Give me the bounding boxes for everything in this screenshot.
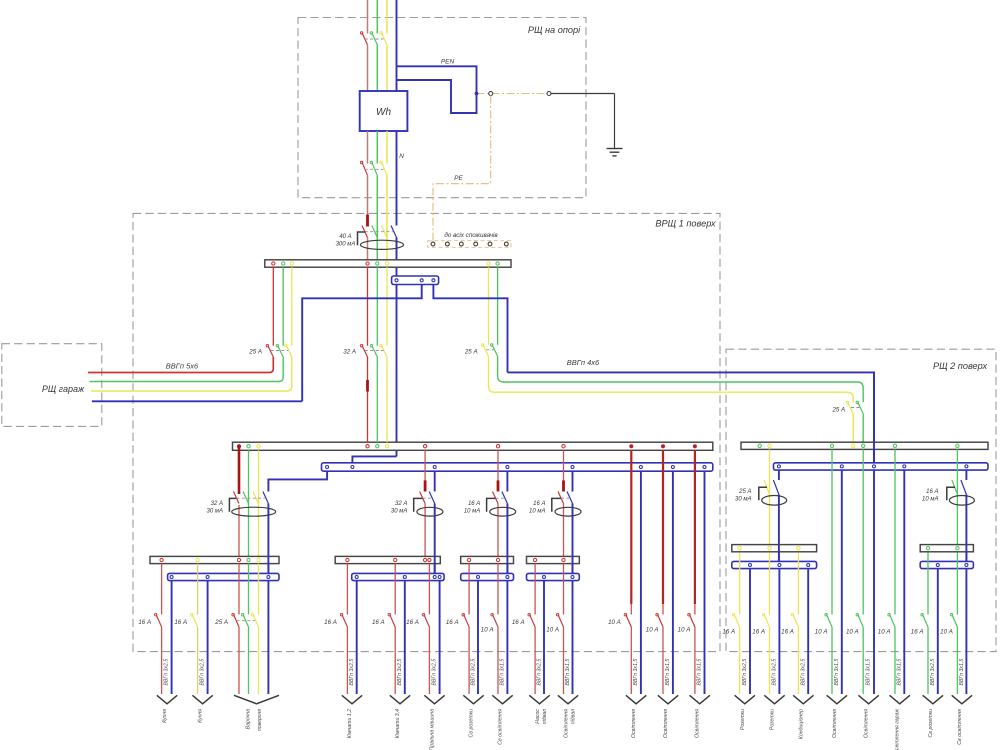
N busbar A2 tap direct3 (703, 466, 706, 469)
wire 32A to bus A2 L3 (386, 357, 388, 442)
RCD group1 pole L3 (253, 492, 259, 504)
wire circuit floor2-1 phase out (739, 627, 741, 694)
wire circuit floor2-7 phase out (927, 627, 929, 694)
busbar floor2 tap spare (758, 444, 761, 447)
RCD floor2-2 pole phase (952, 480, 958, 495)
wire circuit group4-1 phase out (534, 627, 536, 694)
arrow outgoing group1-1 (157, 695, 177, 704)
svg-text:32 А: 32 А (395, 501, 407, 507)
group busbar group2 (335, 556, 440, 563)
group3 busbar tap c1 (467, 558, 470, 561)
svg-text:ВВГп 4х6: ВВГп 4х6 (567, 358, 600, 367)
svg-text:16 А: 16 А (446, 619, 459, 626)
RCD group2 toroid (414, 498, 423, 511)
svg-text:підвал: підвал (542, 709, 548, 724)
svg-text:Освітлення: Освітлення (695, 709, 701, 738)
svg-text:25 А: 25 А (248, 348, 262, 355)
N busbar floor2 tap c4 (840, 465, 843, 468)
RCD group2 pole N (429, 492, 435, 504)
wire N tap right (433, 285, 507, 373)
breaker QF1 pole L3 (382, 33, 388, 45)
wire circuit group1-3 L3 (258, 564, 260, 615)
svg-text:30 мА: 30 мА (735, 497, 751, 503)
breaker group2-3 (424, 615, 430, 628)
N busbar tap 2 (420, 279, 423, 282)
wire N incoming drop (396, 0, 398, 66)
svg-text:Св освітлення: Св освітлення (957, 709, 963, 745)
svg-text:10 А: 10 А (608, 619, 621, 626)
group4 N busbar tap c1 (543, 576, 546, 579)
svg-text:16 А: 16 А (174, 619, 187, 626)
group2 busbar tap in (423, 558, 426, 561)
busbar A1 tap L3 32A (385, 262, 388, 265)
RCD QD1 toroid (358, 232, 366, 245)
arrow outgoing group4-1 (529, 695, 549, 704)
PE bus terminal 6 (504, 242, 508, 246)
wire circuit group1-3 L1 (238, 564, 240, 615)
wire circuit floor2-6 N (903, 470, 905, 694)
breaker 25A garage link (271, 350, 289, 352)
RCD group4 link (561, 497, 569, 499)
wire L3 incoming drop (386, 0, 388, 34)
svg-text:32 А: 32 А (211, 501, 223, 507)
svg-text:Освітлення: Освітлення (864, 709, 870, 738)
group N busbar group3 (461, 573, 514, 580)
wire circuit group2-3 phase out (428, 627, 430, 694)
group busbar floor2-right tap c7 (926, 547, 929, 550)
wire RCD to bus L1 (367, 237, 369, 259)
svg-text:Кімнати 3,4: Кімнати 3,4 (395, 709, 401, 738)
svg-text:16 А: 16 А (533, 501, 545, 507)
PE terminal 1 (489, 92, 493, 96)
group busbar floor2-left tap c1 (738, 547, 741, 550)
wire N tap left (302, 285, 422, 402)
wire feed group1 L2 (248, 450, 250, 556)
svg-text:10 А: 10 А (815, 628, 828, 635)
breaker group4-2 (558, 615, 564, 628)
group1 N busbar tap c2 (206, 576, 209, 579)
svg-text:N: N (399, 153, 404, 160)
svg-text:Освітлення гараж: Освітлення гараж (895, 709, 901, 750)
arrow outgoing group1-3 (234, 695, 279, 704)
breaker 25A floor2 pole L2 (492, 345, 498, 357)
PE bus terminal 3 (459, 242, 463, 246)
cable ВВГп 5х6 wire L2 (90, 357, 284, 382)
RCD group1 pole N (263, 492, 269, 504)
arrow outgoing group1-2 (192, 695, 212, 704)
svg-text:PEN: PEN (441, 59, 455, 66)
svg-text:підвал: підвал (570, 709, 576, 724)
PE bus terminal 2 (446, 242, 450, 246)
wire bus to 32A L1 (367, 267, 369, 346)
busbar A2 tap direct2 (661, 444, 665, 448)
RCD floor2-2 pole N (961, 480, 967, 495)
breaker group3-1 (464, 615, 470, 628)
svg-text:Насос: Насос (535, 709, 541, 724)
group4 busbar tap in (562, 558, 565, 561)
breaker group2-1 (342, 615, 348, 628)
svg-text:16 А: 16 А (911, 628, 924, 635)
group busbar floor2-left tap c3 (797, 547, 800, 550)
busbar A1 tap L2 floor2 (496, 262, 499, 265)
busbar A2 tap group1 L1 (237, 444, 241, 448)
busbar A1 tap L2 garage (282, 262, 285, 265)
N busbar A2 tap direct2 (671, 466, 674, 469)
N busbar floor2 (774, 463, 989, 470)
busbar A2 tap direct1 (629, 444, 633, 448)
svg-text:40 А: 40 А (339, 234, 351, 240)
breaker floor2-3 (793, 615, 799, 628)
wire circuit floor2-2 N (778, 569, 780, 694)
arrow outgoing group2-3 (424, 695, 444, 704)
wire circuit direct-2 phase (662, 450, 664, 604)
svg-text:25 А: 25 А (738, 489, 751, 495)
wire PE tan link from PEN node (477, 93, 548, 95)
busbar A2 (233, 442, 713, 450)
wire group3 phase out (497, 504, 499, 557)
disconnector QS1 pole L2 (372, 162, 378, 175)
RCD group3 link (496, 497, 504, 499)
arrow outgoing direct-2 (658, 695, 678, 704)
wire N feed to busbar A2 (352, 456, 396, 462)
wire L3 to meter (386, 45, 388, 91)
svg-text:ВВГп 3х2,5: ВВГп 3х2,5 (432, 659, 438, 686)
wire circuit group3-1 phase (468, 564, 470, 615)
arrow outgoing floor2-6 (890, 695, 910, 704)
breaker 25A floor2 pole L3 (483, 345, 489, 357)
wire circuit floor2-7 N (937, 569, 939, 694)
wire PEN run to split (397, 66, 477, 113)
svg-text:ВВГп 3х2,5: ВВГп 3х2,5 (537, 659, 543, 686)
busbar A2 tap group1 L3 (257, 445, 260, 448)
disconnector QS1 pole L3 (382, 162, 388, 175)
svg-text:10 мА: 10 мА (464, 509, 480, 515)
breaker 25A floor2 link (486, 349, 494, 351)
group1 busbar tap in L1 (237, 558, 240, 561)
svg-text:ВВГп 3х1,5: ВВГп 3х1,5 (897, 659, 903, 686)
group N busbar floor2-left tap c1 (749, 564, 752, 567)
meter Wh (360, 91, 408, 131)
group N busbar floor2-right tap c7 (936, 564, 939, 567)
svg-text:10 А: 10 А (678, 626, 691, 633)
svg-text:ВРЩ 1 поверх: ВРЩ 1 поверх (655, 218, 716, 228)
group N busbar group1 (168, 573, 279, 580)
wire group1 N crossing (267, 556, 269, 573)
RCD group3 toroid (487, 498, 496, 511)
RCD group4 toroid (552, 498, 561, 511)
RCD QD1 pole L1 (362, 226, 368, 238)
breaker floor2-7 (923, 615, 929, 628)
svg-text:32 А: 32 А (343, 348, 356, 355)
svg-text:16 А: 16 А (468, 501, 480, 507)
svg-text:Розетки: Розетки (740, 709, 746, 730)
wire circuit floor2-5 phase out (862, 627, 864, 694)
RCD QD1 pole L2 (372, 226, 378, 238)
busbar floor2 tap RCD2 (956, 444, 959, 447)
group N busbar floor2 right (920, 561, 973, 568)
svg-text:30 мА: 30 мА (391, 509, 407, 515)
wire group3 N crossing (506, 556, 508, 573)
wire circuit group1-3 out L2 (248, 627, 250, 694)
wire feed floor2 RCD2 phase (956, 449, 958, 544)
svg-text:РЩ на опорі: РЩ на опорі (528, 25, 581, 35)
svg-text:16 А: 16 А (722, 628, 735, 635)
breaker group1-3 (234, 615, 240, 628)
busbar floor2 tap RCD1 (768, 444, 771, 447)
wire feed floor2 RCD1 phase (769, 449, 771, 544)
svg-text:ВВГп 3х1,5: ВВГп 3х1,5 (959, 659, 965, 686)
RCD group3 pole N (502, 492, 508, 504)
wire group2 N out (434, 504, 436, 574)
wire circuit group2-1 N (356, 581, 358, 694)
N busbar A2 (322, 463, 713, 471)
arrow outgoing floor2-7 (923, 695, 943, 704)
breaker 25A garage pole L3 (286, 346, 292, 358)
arrow outgoing group2-2 (390, 695, 410, 704)
svg-text:10 мА: 10 мА (922, 497, 938, 503)
PE bus terminal 4 (474, 242, 478, 246)
RCD group1 pole L1 (234, 492, 240, 504)
group N busbar group4 (527, 573, 580, 580)
node PEN junction (475, 92, 479, 96)
group2 busbar tap c3 (428, 558, 431, 561)
wire feed group3 phase (497, 450, 499, 481)
RCD group2 link (423, 497, 432, 499)
cable ВВГп 4х6 wire L3 (489, 356, 854, 402)
panel box ВРЩ 1 поверх (133, 213, 720, 651)
breaker group4-1 (530, 615, 536, 628)
wire feed group2 N (434, 471, 436, 491)
busbar A2 tap group2 (423, 445, 426, 448)
svg-text:ВВГп 3х1,5: ВВГп 3х1,5 (665, 659, 671, 686)
breaker 25A input floor2 pole L3 (848, 402, 854, 414)
group busbar floor2-right tap c8 (956, 547, 959, 550)
wire circuit floor2-3 phase (797, 552, 799, 614)
breaker QF1 link (365, 38, 384, 40)
busbar floor2 (741, 442, 988, 449)
svg-text:Wh: Wh (376, 107, 391, 118)
panel box РЩ 2 поверх (726, 349, 996, 651)
svg-text:ВВГп 3х2,5: ВВГп 3х2,5 (397, 659, 403, 686)
wire L2 to floor2 bus (862, 414, 864, 442)
group N busbar floor2 left (732, 561, 817, 568)
group busbar group3 (461, 556, 514, 563)
svg-text:16 А: 16 А (926, 489, 938, 495)
svg-text:ВВГп 3х1,5: ВВГп 3х1,5 (633, 659, 639, 686)
RCD group1 toroid (229, 498, 236, 511)
arrow outgoing floor2-1 (735, 695, 755, 704)
svg-text:PE: PE (454, 175, 463, 182)
svg-text:ВВГп 3х2,5: ВВГп 3х2,5 (349, 659, 355, 686)
group N busbar group2 (352, 573, 444, 580)
wire L3 below meter (386, 131, 388, 164)
svg-text:Освітлення: Освітлення (563, 709, 569, 738)
svg-text:10 А: 10 А (940, 628, 953, 635)
PE bus terminal 5 (488, 242, 492, 246)
group2 N busbar tap c1 (355, 576, 358, 579)
N busbar floor2 tap c6 (903, 465, 906, 468)
arrow outgoing floor2-2 (764, 695, 784, 704)
svg-text:до всіх споживачів: до всіх споживачів (444, 231, 498, 239)
svg-text:10 А: 10 А (546, 626, 559, 633)
wire circuit direct-3 phase (694, 450, 696, 604)
wire L2 to meter (376, 45, 378, 91)
wire circuit floor2-3 N (807, 569, 809, 694)
arrow outgoing group3-2 (492, 695, 512, 704)
disconnector QS1 link (365, 168, 384, 170)
N busbar tap 3 (432, 279, 435, 282)
wire circuit floor2-4 phase out (831, 627, 833, 694)
cable ВВГп 4х6 wire N (508, 372, 875, 462)
wire group1 L1 out (238, 505, 240, 556)
group3 N busbar tap c1 (477, 576, 480, 579)
group busbar floor2 left (732, 545, 817, 552)
RCD QD1 pole L3 (382, 226, 388, 238)
svg-text:Кімнати 1,2: Кімнати 1,2 (347, 709, 353, 738)
group N busbar floor2-right tap c8 (965, 564, 968, 567)
arrow outgoing group2-1 (342, 695, 362, 704)
svg-text:Кухня: Кухня (162, 709, 168, 723)
svg-text:ВВГп 3х1,5: ВВГп 3х1,5 (500, 659, 506, 686)
svg-text:ВВГп 3х2,5: ВВГп 3х2,5 (800, 659, 806, 686)
breaker group1-1 (156, 615, 162, 628)
svg-text:16 А: 16 А (781, 628, 794, 635)
svg-text:Пральна машина: Пральна машина (430, 709, 436, 750)
svg-text:ВВГп 3х2,5: ВВГп 3х2,5 (771, 659, 777, 686)
wire N through meter side (396, 66, 398, 91)
wire to earth electrode (549, 93, 615, 95)
N busbar A2 tap direct1 (639, 466, 642, 469)
wire N bus drop main (396, 285, 398, 457)
wire L2 below meter (376, 131, 378, 164)
wire circuit group3-1 phase out (468, 627, 470, 694)
group N busbar floor2-left tap c3 (807, 564, 810, 567)
wire L1 to meter (367, 45, 369, 91)
wire 32A to bus A2 L2 (376, 357, 378, 442)
wire circuit group1-3 out L1 (238, 627, 240, 694)
svg-text:16 А: 16 А (324, 619, 337, 626)
N busbar A2 tap group2 (433, 466, 436, 469)
N busbar A2 tap group1 (326, 466, 329, 469)
wire circuit floor2-7 phase (927, 552, 929, 614)
wire L1 incoming drop (367, 0, 369, 34)
svg-text:ВВГп 5х6: ВВГп 5х6 (166, 361, 199, 370)
svg-text:16 А: 16 А (752, 628, 765, 635)
svg-text:10 А: 10 А (481, 626, 494, 633)
svg-text:ВВГп 3х1,5: ВВГп 3х1,5 (697, 659, 703, 686)
wire circuit group2-2 phase out (394, 627, 396, 694)
wire circuit floor2-8 phase out (956, 627, 958, 694)
wire circuit direct-2 N (672, 471, 674, 694)
RCD floor2-1 toroid (759, 487, 767, 500)
PE bus terminal 1 (431, 242, 435, 246)
busbar A2 tap group4 (562, 445, 565, 448)
wire circuit group1-1 phase out (161, 627, 163, 694)
wire circuit direct-1 phase out (630, 627, 632, 694)
svg-text:300 мА: 300 мА (336, 241, 356, 247)
busbar floor2 tap in L2 (862, 444, 865, 447)
wire PE run to ВРЩ1 (433, 96, 491, 241)
breaker direct-2 (658, 615, 664, 628)
wire circuit group4-2 phase (563, 564, 565, 615)
wire circuit group3-2 phase out (497, 627, 499, 694)
wire circuit group2-1 phase out (346, 627, 348, 694)
wire circuit direct-2 phase out (662, 627, 664, 694)
svg-text:10 А: 10 А (846, 628, 859, 635)
group busbar group1 (150, 556, 279, 563)
RCD QD1 link (365, 231, 393, 233)
wire circuit group1-1 phase (161, 564, 163, 615)
group4 busbar tap c1 (533, 558, 536, 561)
N busbar A2 tap group3 (506, 466, 509, 469)
svg-text:поверхня: поверхня (257, 709, 263, 731)
wire bus to 25A floor2 L3 (488, 267, 490, 345)
svg-text:16 А: 16 А (512, 619, 525, 626)
wire circuit floor2-1 N (749, 569, 751, 694)
breaker group1-2 (192, 615, 198, 628)
RCD floor2-1 pole phase (764, 480, 770, 495)
busbar A2 tap group3 (496, 445, 499, 448)
svg-text:РЩ гараж: РЩ гараж (42, 384, 85, 394)
group busbar floor2 right (920, 545, 973, 552)
svg-text:10 мА: 10 мА (529, 509, 545, 515)
wire L2 to RCD main (376, 175, 378, 259)
wire bus to 32A L2 (376, 267, 378, 346)
RCD group1 link (237, 497, 265, 499)
wire feed group4 phase (563, 450, 565, 481)
wire floor2 RCD2 N crossing (965, 545, 967, 562)
wire floor2 RCD2 N out (965, 495, 967, 562)
N busbar A2 tap feed (351, 466, 354, 469)
svg-text:16 А: 16 А (372, 619, 385, 626)
N busbar floor2 tap RCD1 (777, 465, 780, 468)
breaker 25A input floor2 link (851, 407, 860, 409)
group1 busbar tap c1 (160, 558, 163, 561)
svg-text:16 А: 16 А (138, 619, 151, 626)
wire circuit group1-1 N (171, 581, 173, 694)
arrow outgoing group4-2 (558, 695, 578, 704)
busbar A1 tap L1 garage (272, 262, 275, 265)
wire circuit floor2-6 phase (894, 449, 896, 614)
wire circuit floor2-8 phase (956, 552, 958, 614)
svg-text:25 А: 25 А (464, 348, 478, 355)
N busbar A2 tap group4 (571, 466, 574, 469)
wire circuit floor2-1 phase (739, 552, 741, 614)
breaker 25A garage pole L1 (268, 346, 274, 358)
group2 busbar tap c2 (394, 558, 397, 561)
busbar A2 tap group1 L2 (247, 445, 250, 448)
wire circuit direct-3 phase out (694, 627, 696, 694)
wire L3 to floor2 bus (852, 414, 854, 442)
breaker group3-2 (493, 615, 499, 628)
breaker 32A pole L3 (382, 346, 388, 358)
busbar floor2 tap c6 (893, 444, 896, 447)
wire circuit group1-2 N (207, 581, 209, 694)
wire circuit group4-2 N (572, 581, 574, 694)
wire floor2 N feed through (873, 372, 875, 462)
wire group4 N crossing (572, 556, 574, 573)
group1 busbar tap in L2 (247, 558, 250, 561)
wire group4 phase out (563, 504, 565, 557)
svg-text:Варочна: Варочна (246, 709, 252, 729)
wire feed group1 L3 (258, 450, 260, 556)
N busbar floor2 tap RCD2 (965, 465, 968, 468)
wire feed group1 L1 (238, 446, 241, 494)
svg-text:Освітлення: Освітлення (832, 709, 838, 738)
wire circuit group4-1 phase (534, 564, 536, 615)
cable ВВГп 5х6 wire L3 (91, 357, 292, 391)
wire circuit group1-2 phase (197, 564, 199, 615)
